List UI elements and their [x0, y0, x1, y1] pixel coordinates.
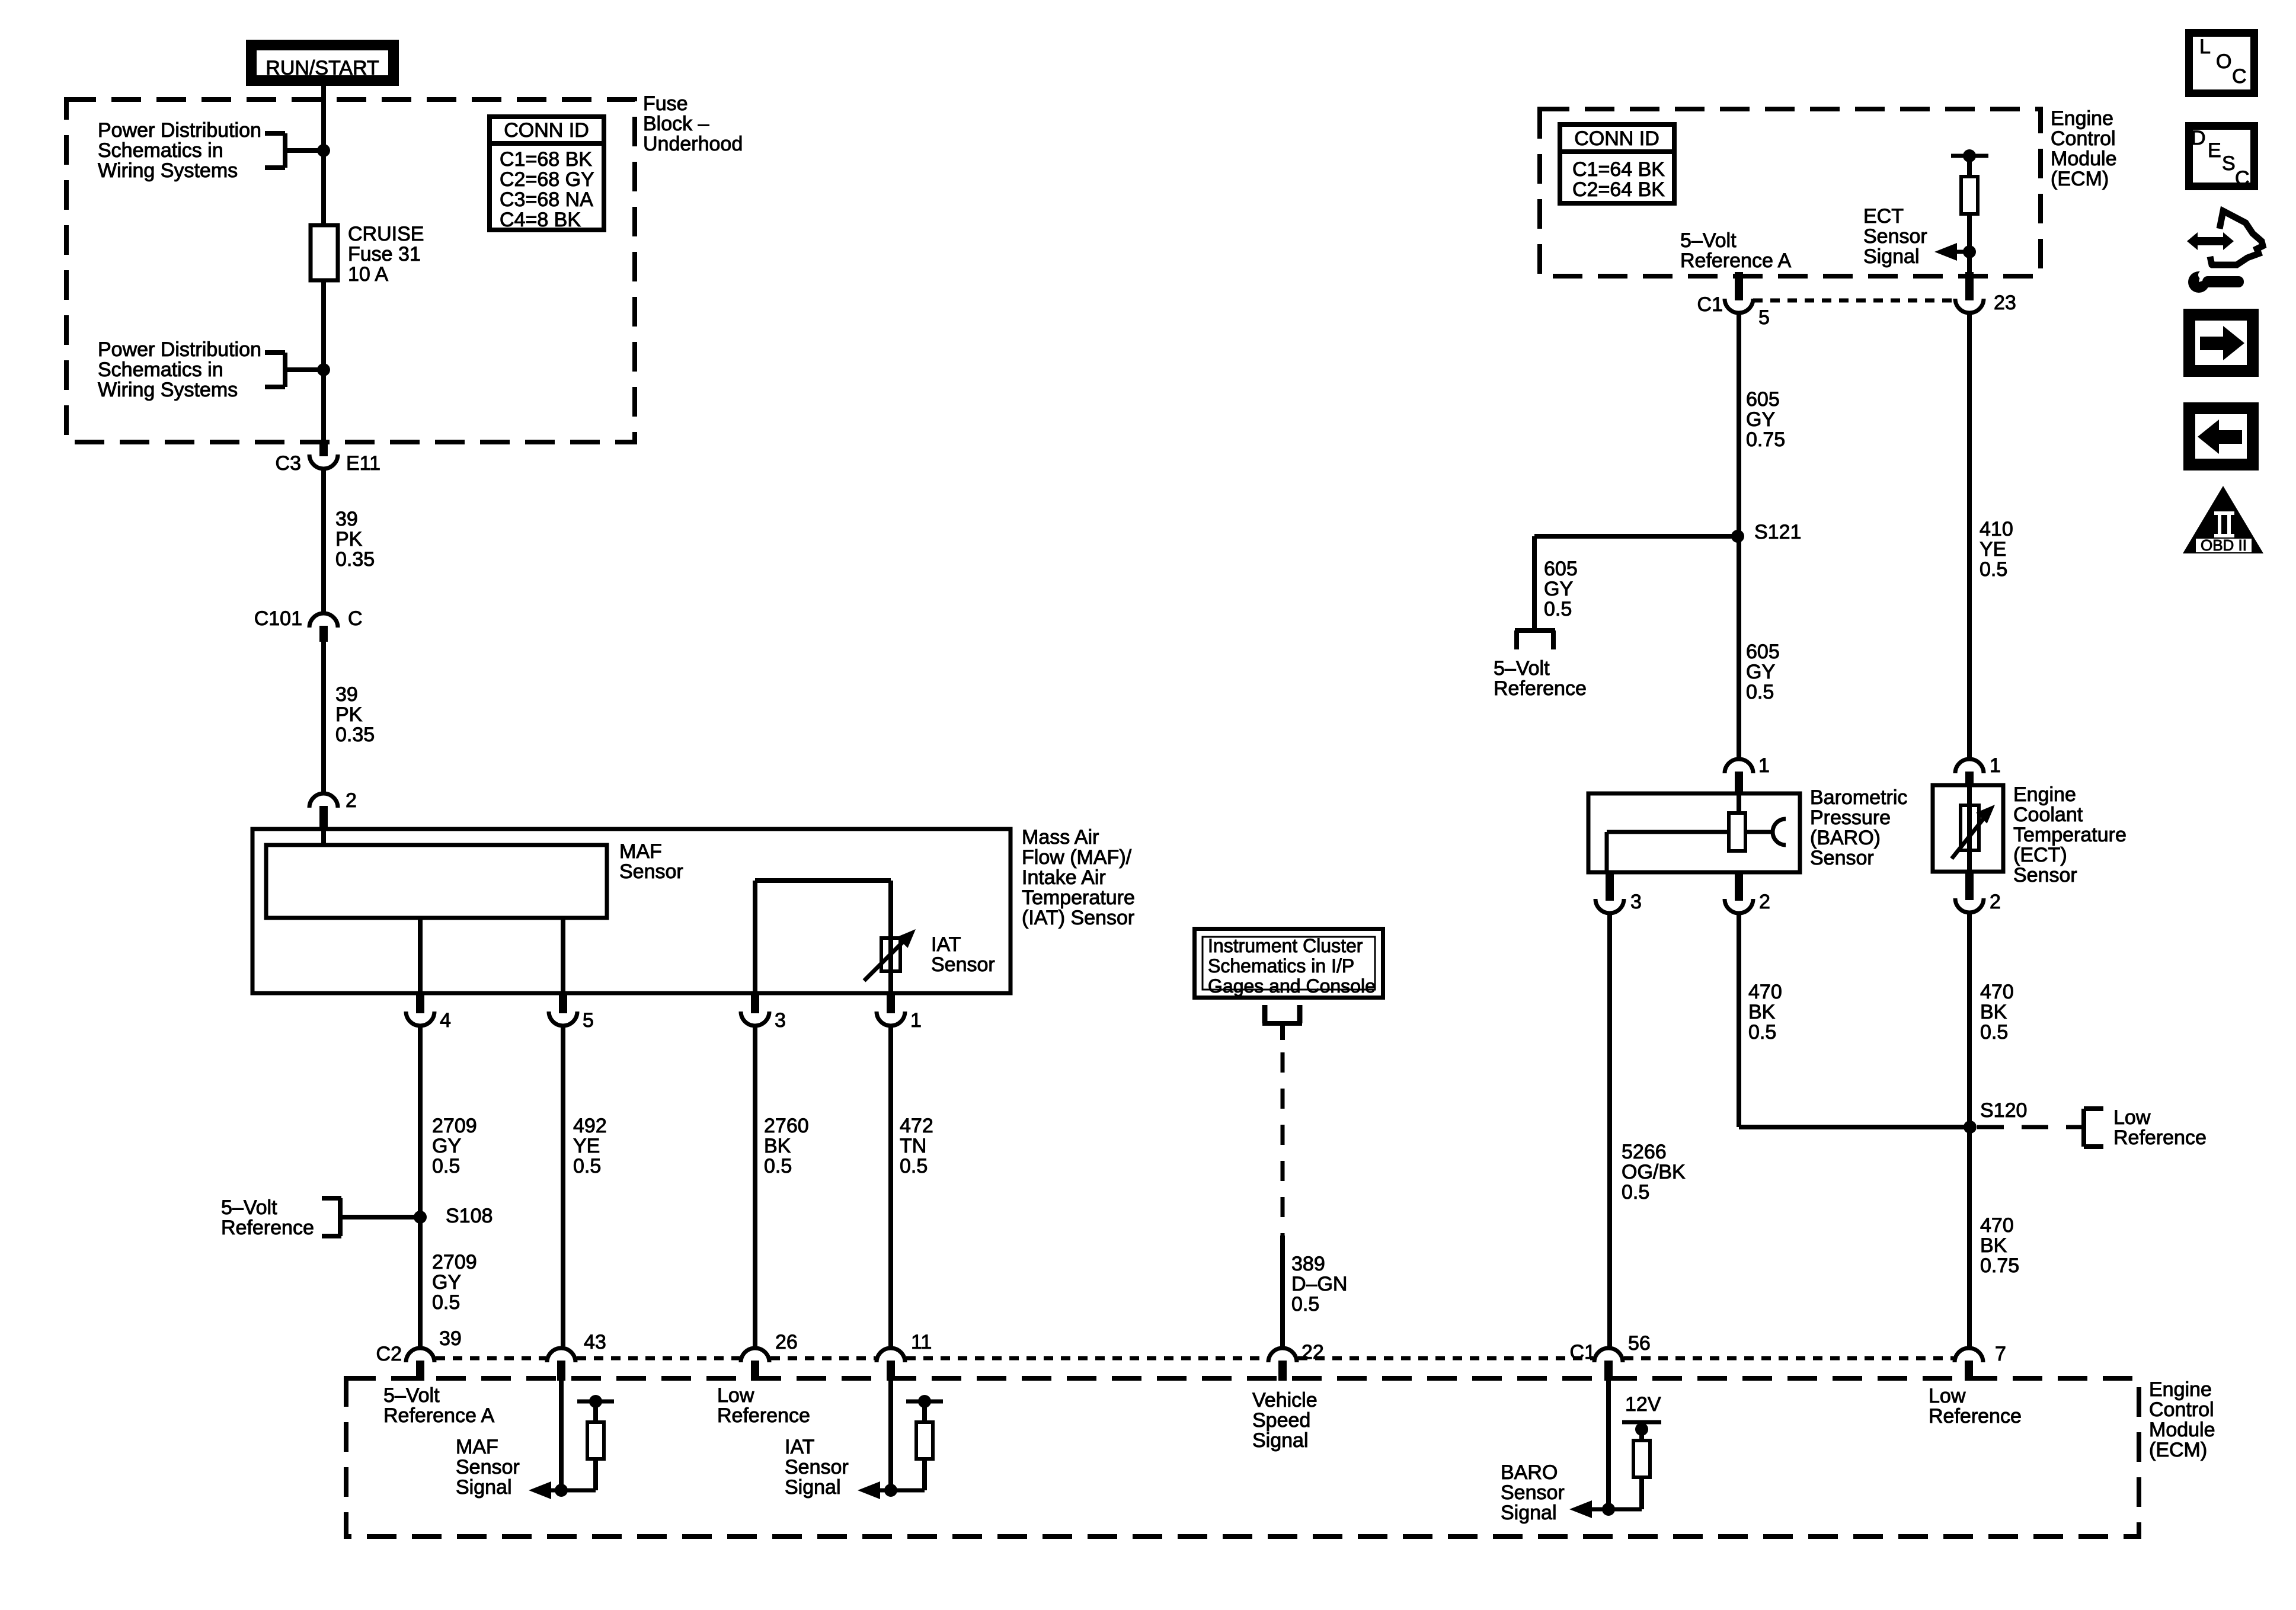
MAF/IAT sensor outer box — [252, 829, 1011, 993]
svg-text:GY: GY — [1746, 408, 1775, 431]
svg-text:39: 39 — [439, 1327, 462, 1350]
wire 389 dashed from cluster — [1281, 1052, 1285, 1235]
svg-text:C3: C3 — [276, 452, 301, 475]
label Low Reference (pin 7) — [1929, 1385, 2022, 1427]
svg-text:C101: C101 — [254, 607, 302, 630]
svg-text:12V: 12V — [1625, 1393, 1661, 1416]
splice S121 — [1731, 521, 1801, 543]
svg-text:39: 39 — [335, 508, 358, 530]
svg-text:GY: GY — [1544, 578, 1573, 600]
svg-text:Control: Control — [2051, 127, 2116, 150]
connector BARO pin 1 — [1725, 754, 1770, 795]
wire RUN/START to fuse — [321, 86, 326, 225]
svg-text:Temperature: Temperature — [1022, 886, 1135, 909]
svg-text:389: 389 — [1291, 1253, 1325, 1275]
svg-text:0.5: 0.5 — [764, 1155, 792, 1177]
wire ECT junction to box bottom — [1967, 252, 1972, 273]
svg-text:YE: YE — [1980, 538, 2006, 561]
svg-text:Wiring Systems: Wiring Systems — [98, 379, 238, 401]
svg-text:10 A: 10 A — [348, 263, 388, 286]
MAF sensor element box — [266, 845, 607, 918]
svg-text:Underhood: Underhood — [643, 133, 743, 155]
fuse F31 CRUISE Fuse 31 10A — [311, 225, 338, 280]
svg-text:MAF: MAF — [456, 1436, 498, 1458]
svg-text:Reference: Reference — [2113, 1126, 2207, 1149]
Engine Control Module (ECM) bottom dashed box — [346, 1378, 2139, 1537]
connector pin 7 — [1955, 1343, 2006, 1381]
Instrument Cluster reference box — [1195, 929, 1383, 998]
connector C1 pin 5 — [1697, 272, 1770, 329]
bracket 5-Volt Reference to S108 — [322, 1198, 418, 1236]
wire S121 branch left — [1534, 536, 1738, 630]
svg-text:4: 4 — [440, 1009, 451, 1032]
wire 470 BK BARO pin2 down — [1739, 915, 1970, 1127]
svg-text:Reference A: Reference A — [383, 1404, 494, 1427]
svg-text:Low: Low — [1929, 1385, 1966, 1407]
wire pin2 into MAF element — [321, 828, 326, 845]
label wire 470 BK 0.5 (ECT) — [1980, 981, 2014, 1044]
wire 39 PK segment 2 — [321, 642, 326, 792]
arrow MAF Sensor Signal — [529, 1481, 568, 1499]
svg-text:S108: S108 — [446, 1205, 493, 1227]
svg-text:0.5: 0.5 — [573, 1155, 601, 1177]
icon OBD II triangle — [2183, 486, 2263, 554]
svg-text:Sensor: Sensor — [931, 953, 995, 976]
arrow BARO Sensor Signal — [1569, 1500, 1615, 1518]
node junction on wire (Power Distribution 1) — [317, 144, 330, 157]
svg-text:YE: YE — [573, 1135, 600, 1157]
svg-text:Flow (MAF)/: Flow (MAF)/ — [1022, 846, 1132, 869]
label Mass Air Flow (MAF)/Intake Air Temperature (IAT) Sensor — [1022, 826, 1135, 929]
svg-text:Fuse: Fuse — [643, 92, 688, 115]
svg-text:(BARO): (BARO) — [1810, 827, 1881, 849]
connector C101 / C — [254, 607, 363, 642]
svg-text:0.35: 0.35 — [335, 548, 375, 571]
svg-text:2: 2 — [1990, 891, 2001, 913]
Engine Coolant Temperature (ECT) Sensor box — [1933, 785, 2003, 872]
wire 39 PK segment 1 — [321, 470, 326, 612]
arrow IAT Sensor Signal — [858, 1481, 897, 1499]
connector BARO pin 2 — [1725, 872, 1770, 913]
label wire 472 TN 0.5 — [900, 1115, 933, 1177]
svg-text:(ECM): (ECM) — [2051, 168, 2109, 190]
svg-text:C2: C2 — [376, 1343, 402, 1365]
svg-text:C2=64 BK: C2=64 BK — [1572, 178, 1665, 201]
label wire 492 YE 0.5 — [573, 1115, 607, 1177]
svg-text:0.5: 0.5 — [1544, 598, 1572, 620]
label Engine Coolant Temperature (ECT) Sensor — [2013, 783, 2126, 886]
label wire 605 GY 0.75 — [1746, 388, 1785, 451]
svg-text:(IAT) Sensor: (IAT) Sensor — [1022, 907, 1134, 929]
wire fuse to connector C3 — [321, 280, 326, 446]
fuse block dashed box (Fuse Block - Underhood) — [66, 100, 635, 442]
svg-text:Schematics in: Schematics in — [98, 139, 223, 162]
wire 2760 BK pin3 down — [753, 1028, 757, 1346]
connector pin 2 of MAF sensor — [309, 789, 357, 828]
svg-text:0.35: 0.35 — [335, 724, 375, 746]
svg-text:5–Volt: 5–Volt — [383, 1384, 440, 1407]
svg-text:Sensor: Sensor — [785, 1456, 849, 1478]
wire pin43 inside ECM — [559, 1381, 564, 1490]
label wire 470 BK 0.5 (BARO) — [1748, 981, 1782, 1044]
connector C1 pin 56 — [1570, 1332, 1651, 1381]
svg-text:Wiring Systems: Wiring Systems — [98, 159, 238, 182]
svg-text:1: 1 — [910, 1009, 922, 1032]
svg-text:Signal: Signal — [1863, 245, 1920, 268]
label wire 2709 GY 0.5 (lower) — [432, 1251, 477, 1314]
svg-text:C4=8 BK: C4=8 BK — [500, 209, 581, 231]
svg-text:CONN ID: CONN ID — [504, 119, 589, 142]
svg-text:(ECM): (ECM) — [2149, 1439, 2207, 1461]
svg-text:605: 605 — [1746, 388, 1780, 411]
svg-text:23: 23 — [1994, 292, 2016, 314]
label wire 5266 OG/BK 0.5 — [1622, 1141, 1686, 1204]
svg-text:C1=64 BK: C1=64 BK — [1572, 158, 1665, 181]
svg-text:Coolant: Coolant — [2013, 804, 2083, 826]
svg-text:BARO: BARO — [1501, 1461, 1558, 1484]
svg-text:Sensor: Sensor — [2013, 864, 2077, 886]
svg-text:5: 5 — [583, 1009, 594, 1032]
arrow ECT Sensor Signal — [1934, 243, 1976, 261]
svg-text:PK: PK — [335, 528, 363, 550]
connector ECT pin 1 — [1955, 754, 2001, 786]
svg-text:39: 39 — [335, 683, 358, 706]
svg-text:Sensor: Sensor — [1501, 1481, 1565, 1504]
icon left-arrow box — [2189, 408, 2253, 465]
connector C2 pin 39 — [376, 1327, 462, 1381]
label Low Reference (pin 26) — [717, 1384, 810, 1427]
svg-text:Block –: Block – — [643, 113, 709, 135]
connector ECT pin 2 — [1955, 872, 2001, 913]
svg-text:492: 492 — [573, 1115, 607, 1137]
connector pin 43 — [547, 1331, 606, 1381]
node junction on wire (Power Distribution 2) — [317, 363, 330, 376]
resistor ECM MAF pull-up — [551, 1395, 614, 1490]
wire 605 GY pin5 to S121 — [1737, 315, 1741, 536]
label 5-Volt Reference A (bottom) — [383, 1384, 494, 1427]
svg-text:472: 472 — [900, 1115, 933, 1137]
svg-text:5–Volt: 5–Volt — [221, 1196, 277, 1219]
label IAT Sensor Signal — [785, 1436, 849, 1499]
svg-text:2: 2 — [346, 789, 357, 812]
svg-text:RUN/START: RUN/START — [266, 57, 379, 79]
svg-text:BK: BK — [1748, 1001, 1776, 1023]
svg-text:BK: BK — [1980, 1001, 2007, 1023]
svg-text:E11: E11 — [346, 452, 380, 475]
svg-text:OBD II: OBD II — [2201, 536, 2247, 554]
svg-text:Gages and Console: Gages and Console — [1208, 975, 1376, 997]
svg-text:Power Distribution: Power Distribution — [98, 119, 261, 142]
wire pin56 inside ECM — [1606, 1381, 1611, 1509]
svg-text:C: C — [2235, 167, 2250, 190]
label wire 605 GY 0.5 (branch) — [1544, 558, 1578, 620]
label wire 2760 BK 0.5 — [764, 1115, 809, 1177]
svg-text:0.75: 0.75 — [1980, 1254, 2019, 1277]
svg-text:605: 605 — [1746, 641, 1780, 663]
resistor ECM IAT pull-up — [880, 1395, 943, 1490]
svg-text:Sensor: Sensor — [1863, 225, 1927, 248]
svg-text:CONN ID: CONN ID — [1574, 127, 1659, 150]
svg-text:Pressure: Pressure — [1810, 806, 1891, 829]
label wire 605 GY 0.5 (lower) — [1746, 641, 1780, 703]
Barometric Pressure (BARO) Sensor box — [1588, 793, 1800, 872]
svg-text:C1: C1 — [1697, 293, 1723, 316]
svg-text:3: 3 — [1630, 891, 1642, 913]
svg-text:Engine: Engine — [2149, 1378, 2212, 1401]
svg-text:2709: 2709 — [432, 1251, 477, 1273]
svg-text:Intake Air: Intake Air — [1022, 866, 1106, 889]
svg-text:O: O — [2216, 50, 2231, 73]
label Fuse Block - Underhood — [643, 92, 743, 155]
label BARO Sensor Signal — [1501, 1461, 1565, 1524]
svg-text:2: 2 — [1759, 891, 1770, 913]
svg-text:5–Volt: 5–Volt — [1494, 657, 1550, 680]
svg-text:IAT: IAT — [931, 933, 961, 956]
svg-text:Temperature: Temperature — [2013, 824, 2126, 846]
svg-text:Vehicle: Vehicle — [1252, 1389, 1318, 1411]
svg-text:GY: GY — [432, 1135, 461, 1157]
svg-text:0.5: 0.5 — [1746, 681, 1774, 703]
IAT variable resistor — [864, 929, 916, 981]
bracket to Power Distribution 1 — [265, 133, 321, 168]
svg-text:0.5: 0.5 — [1291, 1293, 1319, 1315]
svg-text:Sensor: Sensor — [619, 860, 683, 883]
svg-text:Sensor: Sensor — [1810, 847, 1874, 869]
wire 410 YE pin23 down — [1967, 315, 1972, 757]
svg-text:Engine: Engine — [2013, 783, 2076, 806]
svg-text:S: S — [2222, 152, 2236, 175]
connector BARO pin 3 — [1595, 872, 1642, 913]
label CRUISE Fuse 31 10 A — [348, 223, 424, 286]
svg-text:Barometric: Barometric — [1810, 786, 1907, 809]
svg-text:2760: 2760 — [764, 1115, 809, 1137]
label wire 39 PK 0.35 (upper) — [335, 508, 375, 571]
svg-text:5: 5 — [1758, 306, 1770, 329]
connector pin 22 — [1268, 1341, 1324, 1381]
svg-text:C: C — [2232, 65, 2247, 88]
svg-text:410: 410 — [1980, 518, 2013, 540]
label 5-Volt Reference A (top) — [1680, 229, 1791, 272]
resistor ECM ECT pull-up — [1951, 149, 1988, 252]
bracket to Power Distribution 2 — [265, 353, 321, 387]
svg-text:D: D — [2191, 127, 2206, 149]
svg-text:2709: 2709 — [432, 1115, 477, 1137]
svg-text:0.5: 0.5 — [432, 1291, 460, 1314]
label Low Reference (S120 stub) — [2113, 1106, 2207, 1149]
label ECT Sensor Signal — [1863, 205, 1927, 268]
splice S108 — [414, 1205, 493, 1227]
svg-text:C: C — [348, 607, 363, 630]
svg-text:Reference: Reference — [1929, 1405, 2022, 1427]
svg-text:Fuse 31: Fuse 31 — [348, 243, 421, 265]
icon right-arrow box — [2189, 315, 2253, 371]
svg-text:Control: Control — [2149, 1398, 2214, 1421]
svg-text:ECT: ECT — [1863, 205, 1904, 228]
svg-text:PK: PK — [335, 703, 363, 726]
svg-text:Instrument Cluster: Instrument Cluster — [1208, 935, 1363, 956]
connector pin 23 — [1955, 272, 2016, 314]
svg-text:Schematics in I/P: Schematics in I/P — [1208, 955, 1354, 977]
svg-text:CRUISE: CRUISE — [348, 223, 424, 245]
svg-text:C2=68 GY: C2=68 GY — [500, 168, 594, 191]
svg-text:Reference A: Reference A — [1680, 249, 1791, 272]
svg-text:BK: BK — [764, 1135, 791, 1157]
svg-text:TN: TN — [900, 1135, 926, 1157]
svg-text:OG/BK: OG/BK — [1622, 1161, 1686, 1183]
svg-text:3: 3 — [775, 1009, 786, 1032]
svg-text:Module: Module — [2051, 148, 2117, 170]
svg-text:Signal: Signal — [1252, 1429, 1309, 1452]
svg-text:0.5: 0.5 — [1980, 558, 2007, 581]
off-page reference Power Distribution 2 text — [98, 338, 261, 401]
connector pin 3 — [741, 993, 786, 1032]
connector C3 / E11 — [276, 444, 380, 475]
connector pin 4 — [406, 993, 451, 1032]
svg-text:Schematics in: Schematics in — [98, 359, 223, 381]
connector pin 1 — [877, 993, 922, 1032]
left CONN ID table — [490, 117, 604, 231]
svg-text:605: 605 — [1544, 558, 1578, 580]
off-page 5-Volt Reference text (left) — [221, 1196, 314, 1239]
svg-text:GY: GY — [1746, 661, 1775, 683]
connector pin 11 — [877, 1331, 932, 1381]
svg-text:Signal: Signal — [456, 1476, 512, 1499]
svg-text:Reference: Reference — [221, 1217, 314, 1239]
wire 605 GY S121 to BARO — [1737, 536, 1741, 757]
svg-text:GY: GY — [432, 1271, 461, 1294]
svg-text:Engine: Engine — [2051, 107, 2113, 130]
wire pin11 inside ECM — [888, 1381, 893, 1490]
label MAF Sensor — [619, 840, 683, 883]
svg-text:470: 470 — [1748, 981, 1782, 1003]
svg-text:IAT: IAT — [785, 1436, 814, 1458]
right CONN ID table — [1560, 124, 1674, 203]
svg-text:S120: S120 — [1980, 1099, 2027, 1122]
svg-text:470: 470 — [1980, 981, 2014, 1003]
svg-text:BK: BK — [1980, 1234, 2007, 1257]
svg-text:43: 43 — [584, 1331, 606, 1353]
svg-text:56: 56 — [1628, 1332, 1651, 1355]
svg-text:0.5: 0.5 — [1980, 1021, 2008, 1044]
dashed stub S120 Low Reference — [1977, 1109, 2103, 1147]
resistor ECM BARO pull-up 12V — [1592, 1422, 1661, 1509]
svg-text:0.5: 0.5 — [1622, 1181, 1649, 1204]
label IAT Sensor — [931, 933, 995, 976]
icon vehicle with double arrow and wrench — [2187, 211, 2263, 293]
svg-text:0.75: 0.75 — [1746, 428, 1785, 451]
label Vehicle Speed Signal — [1252, 1389, 1318, 1452]
label wire 39 PK 0.35 (lower) — [335, 683, 375, 746]
svg-text:Module: Module — [2149, 1419, 2215, 1441]
icon LOC box — [2189, 33, 2255, 94]
IAT loop wire — [755, 881, 891, 993]
svg-text:(ECT): (ECT) — [2013, 844, 2067, 866]
BARO transducer symbol — [1607, 793, 1786, 872]
wire 492 YE pin5 down — [561, 1028, 565, 1346]
svg-text:D–GN: D–GN — [1291, 1273, 1347, 1295]
label Barometric Pressure (BARO) Sensor — [1810, 786, 1907, 869]
svg-text:7: 7 — [1995, 1343, 2006, 1365]
label wire 410 YE 0.5 — [1980, 518, 2013, 581]
svg-text:1: 1 — [1990, 754, 2001, 777]
bracket below Instrument Cluster box — [1262, 1005, 1302, 1040]
wire MAF element to pin 5 — [561, 918, 565, 993]
label 12V — [1625, 1393, 1661, 1416]
splice S120 — [1964, 1099, 2027, 1134]
wire 389 solid to pin 22 — [1280, 1235, 1285, 1346]
svg-text:Speed: Speed — [1252, 1409, 1310, 1432]
svg-text:C3=68 NA: C3=68 NA — [500, 188, 593, 211]
svg-text:Reference: Reference — [717, 1404, 810, 1427]
svg-text:Signal: Signal — [785, 1476, 841, 1499]
wire 472 TN pin1 down — [888, 1028, 893, 1346]
svg-text:Signal: Signal — [1501, 1502, 1557, 1524]
svg-text:0.5: 0.5 — [1748, 1021, 1776, 1044]
label wire 470 BK 0.75 — [1980, 1214, 2019, 1277]
svg-text:Reference: Reference — [1494, 677, 1587, 700]
label Engine Control Module (ECM) bottom — [2149, 1378, 2215, 1461]
label wire 2709 GY 0.5 (upper) — [432, 1115, 477, 1177]
connector pin 5 — [549, 993, 594, 1032]
icon DESC box — [2189, 126, 2255, 190]
Engine Control Module (ECM) top dashed box — [1540, 109, 2041, 276]
svg-text:S121: S121 — [1754, 521, 1801, 543]
svg-text:470: 470 — [1980, 1214, 2014, 1237]
svg-text:Low: Low — [717, 1384, 754, 1407]
dotted line C1 connector — [1753, 299, 1955, 303]
svg-text:5–Volt: 5–Volt — [1680, 229, 1737, 252]
svg-text:26: 26 — [775, 1331, 798, 1353]
wire 2709 GY pin4 down — [418, 1028, 423, 1346]
svg-text:1: 1 — [1758, 754, 1770, 777]
ECT thermistor symbol — [1952, 785, 1995, 872]
dotted harness line C2/C1 — [436, 1356, 1953, 1361]
svg-text:Sensor: Sensor — [456, 1456, 520, 1478]
svg-text:Mass Air: Mass Air — [1022, 826, 1099, 849]
wire MAF element to pin 4 — [418, 918, 423, 993]
svg-text:Power Distribution: Power Distribution — [98, 338, 261, 361]
off-page end bracket (5-Volt Reference) — [1515, 630, 1555, 649]
svg-text:5266: 5266 — [1622, 1141, 1667, 1163]
svg-text:L: L — [2199, 36, 2211, 58]
svg-text:Low: Low — [2113, 1106, 2151, 1129]
svg-text:E: E — [2208, 139, 2221, 162]
label wire 389 D-GN 0.5 — [1291, 1253, 1347, 1315]
off-page reference Power Distribution 1 text — [98, 119, 261, 182]
svg-text:0.5: 0.5 — [432, 1155, 460, 1177]
connector pin 26 — [741, 1331, 798, 1381]
label MAF Sensor Signal — [456, 1436, 520, 1499]
switch node RUN/START box — [250, 44, 395, 82]
svg-text:MAF: MAF — [619, 840, 662, 863]
label 5-Volt Reference (stub) — [1494, 657, 1587, 700]
wire 470 BK ECT pin2 down — [1967, 914, 1972, 1346]
svg-text:11: 11 — [911, 1331, 932, 1353]
svg-text:0.5: 0.5 — [900, 1155, 928, 1177]
wire 5266 OG/BK BARO pin3 down — [1607, 915, 1612, 1346]
label Engine Control Module (ECM) top — [2051, 107, 2117, 190]
svg-text:C1=68 BK: C1=68 BK — [500, 148, 592, 171]
